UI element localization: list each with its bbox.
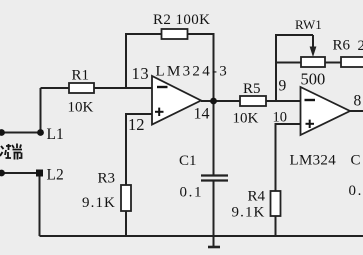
- wire pin12 input: [126, 114, 152, 185]
- wire L2 stub: [0, 172, 40, 174]
- ground: [208, 246, 220, 249]
- wire R2 left branch: [126, 34, 162, 88]
- svg-text:14: 14: [194, 106, 210, 123]
- svg-text:C: C: [351, 153, 361, 169]
- node L1 junction dot: [37, 129, 44, 136]
- svg-text:13: 13: [132, 64, 150, 83]
- wire R3 to rail: [125, 211, 127, 236]
- node L2 junction dot: [36, 170, 43, 177]
- wire L1 stub: [0, 132, 41, 134]
- resistor R2: [162, 29, 188, 39]
- svg-text:0.1: 0.1: [180, 185, 204, 201]
- resistor R1: [69, 83, 94, 93]
- svg-text:C1: C1: [179, 153, 197, 169]
- node L1 terminal dot: [0, 129, 5, 136]
- svg-text:0.1: 0.1: [349, 183, 363, 199]
- svg-text:R2 100K: R2 100K: [153, 12, 210, 28]
- svg-text:R4: R4: [248, 189, 266, 205]
- potentiometer RW1 wiper arrow: [312, 35, 314, 48]
- svg-text:8: 8: [354, 93, 362, 110]
- svg-text:R5: R5: [243, 81, 261, 97]
- svg-text:9.1K: 9.1K: [232, 205, 266, 221]
- wire pin10 input: [276, 124, 301, 191]
- wire RW1 left terminal: [276, 62, 301, 64]
- wire R5 right to pin9: [266, 100, 301, 102]
- wire L2 down to rail: [39, 173, 41, 236]
- node 冷端 cold-junction label: [0, 144, 22, 160]
- op-amp U1 minus input: [157, 86, 168, 88]
- wire op2 output pin8: [350, 110, 363, 112]
- svg-text:R1: R1: [72, 68, 90, 84]
- svg-text:R6: R6: [333, 38, 351, 54]
- svg-text:9.1K: 9.1K: [82, 195, 116, 211]
- svg-text:2: 2: [358, 38, 363, 54]
- wire RW1 to R6: [325, 62, 341, 64]
- resistor R6: [341, 57, 363, 67]
- wire R2 right branch: [188, 34, 214, 101]
- resistor R4: [271, 191, 281, 216]
- capacitor C1: [201, 176, 228, 181]
- op-amp U2 LM324: [301, 87, 351, 135]
- resistor R3: [121, 185, 131, 211]
- wire R4 to rail: [275, 216, 277, 236]
- op-amp U1 plus input: [155, 108, 164, 116]
- svg-text:RW1: RW1: [295, 17, 322, 32]
- wire R1 right to pin13: [94, 87, 152, 89]
- node op1 output dot: [210, 98, 217, 105]
- svg-text:L2: L2: [47, 167, 64, 184]
- wire C1 bottom to ground: [213, 181, 215, 246]
- potentiometer RW1 body: [301, 57, 325, 67]
- svg-text:10: 10: [273, 110, 288, 126]
- wire op1 output to R5: [201, 100, 240, 102]
- op-amp U2 minus input: [305, 99, 316, 101]
- svg-text:R3: R3: [98, 171, 116, 187]
- op-amp U2 plus input: [306, 120, 315, 128]
- wire C1 top: [213, 101, 215, 175]
- svg-text:LM324-3: LM324-3: [156, 64, 230, 80]
- svg-text:10K: 10K: [233, 111, 259, 127]
- svg-text:LM324: LM324: [290, 153, 337, 169]
- wire pin9 node up to RW1: [276, 35, 313, 101]
- op-amp U1 LM324-3: [152, 76, 201, 125]
- wire R1 input vertical: [40, 88, 42, 133]
- svg-text:L1: L1: [47, 126, 64, 143]
- wire R1 left: [41, 87, 70, 89]
- svg-text:12: 12: [128, 115, 145, 134]
- svg-text:500: 500: [301, 70, 326, 89]
- node L2 terminal dot: [0, 170, 5, 177]
- resistor R5: [240, 96, 266, 106]
- wire bottom rail: [40, 235, 363, 237]
- svg-text:10K: 10K: [68, 100, 94, 116]
- svg-text:9: 9: [279, 78, 287, 95]
